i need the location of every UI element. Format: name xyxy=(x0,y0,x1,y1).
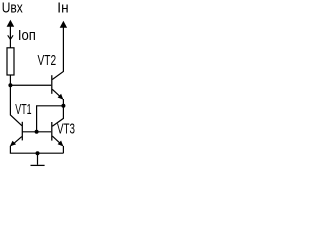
svg-text:VT3: VT3 xyxy=(57,122,75,138)
svg-text:Iоп: Iоп xyxy=(18,27,36,44)
transistor VT1 emitter xyxy=(11,137,22,146)
svg-text:VT1: VT1 xyxy=(15,102,31,118)
wire: resistor bottom to node A xyxy=(9,75,11,85)
wire: VT1 emitter to bottom rail xyxy=(10,146,63,153)
VT3 emitter arrowhead xyxy=(58,141,64,147)
wire: node B down to VT3 collector xyxy=(52,106,63,126)
node D (junction dot, bottom rail to ground) xyxy=(36,151,40,155)
wire: VT3 emitter to bottom rail xyxy=(62,146,64,153)
node A (junction dot, resistor/VT2 base/VT1 collector) xyxy=(8,83,12,87)
transistor VT2 base bar xyxy=(51,75,53,94)
resistor R xyxy=(7,48,14,75)
transistor VT2 emitter xyxy=(52,89,62,99)
wire: VT2 emitter to node B xyxy=(62,99,64,106)
wire: node A down to VT1 collector xyxy=(10,85,22,126)
node B (junction dot, VT2 emitter/VT3 collector/base tie) xyxy=(61,104,65,108)
terminal arrow Iн xyxy=(60,21,67,28)
VT2 emitter arrowhead xyxy=(58,94,64,100)
VT1 emitter arrowhead xyxy=(10,141,16,147)
terminal arrow Uвх xyxy=(7,20,15,27)
transistor VT2 collector xyxy=(52,27,63,80)
svg-text:Uвх: Uвх xyxy=(2,0,24,16)
wire: node A to VT2 base xyxy=(10,84,51,86)
wire: base rail VT1 base to VT3 base xyxy=(22,131,51,133)
node C (junction dot on base rail) xyxy=(35,130,39,134)
transistor VT3 emitter xyxy=(52,136,62,146)
svg-text:VT2: VT2 xyxy=(38,53,57,69)
current arrow Iоп (chevron on wire) xyxy=(8,35,13,39)
transistor VT1 base bar xyxy=(21,122,23,141)
wire: ground stub xyxy=(37,153,39,165)
transistor VT3 base bar xyxy=(51,122,53,141)
wire: Uвх terminal to resistor R top xyxy=(9,23,11,48)
ground xyxy=(31,164,45,166)
wire: node B left and down to base rail xyxy=(37,106,64,132)
svg-text:Iн: Iн xyxy=(57,0,68,16)
